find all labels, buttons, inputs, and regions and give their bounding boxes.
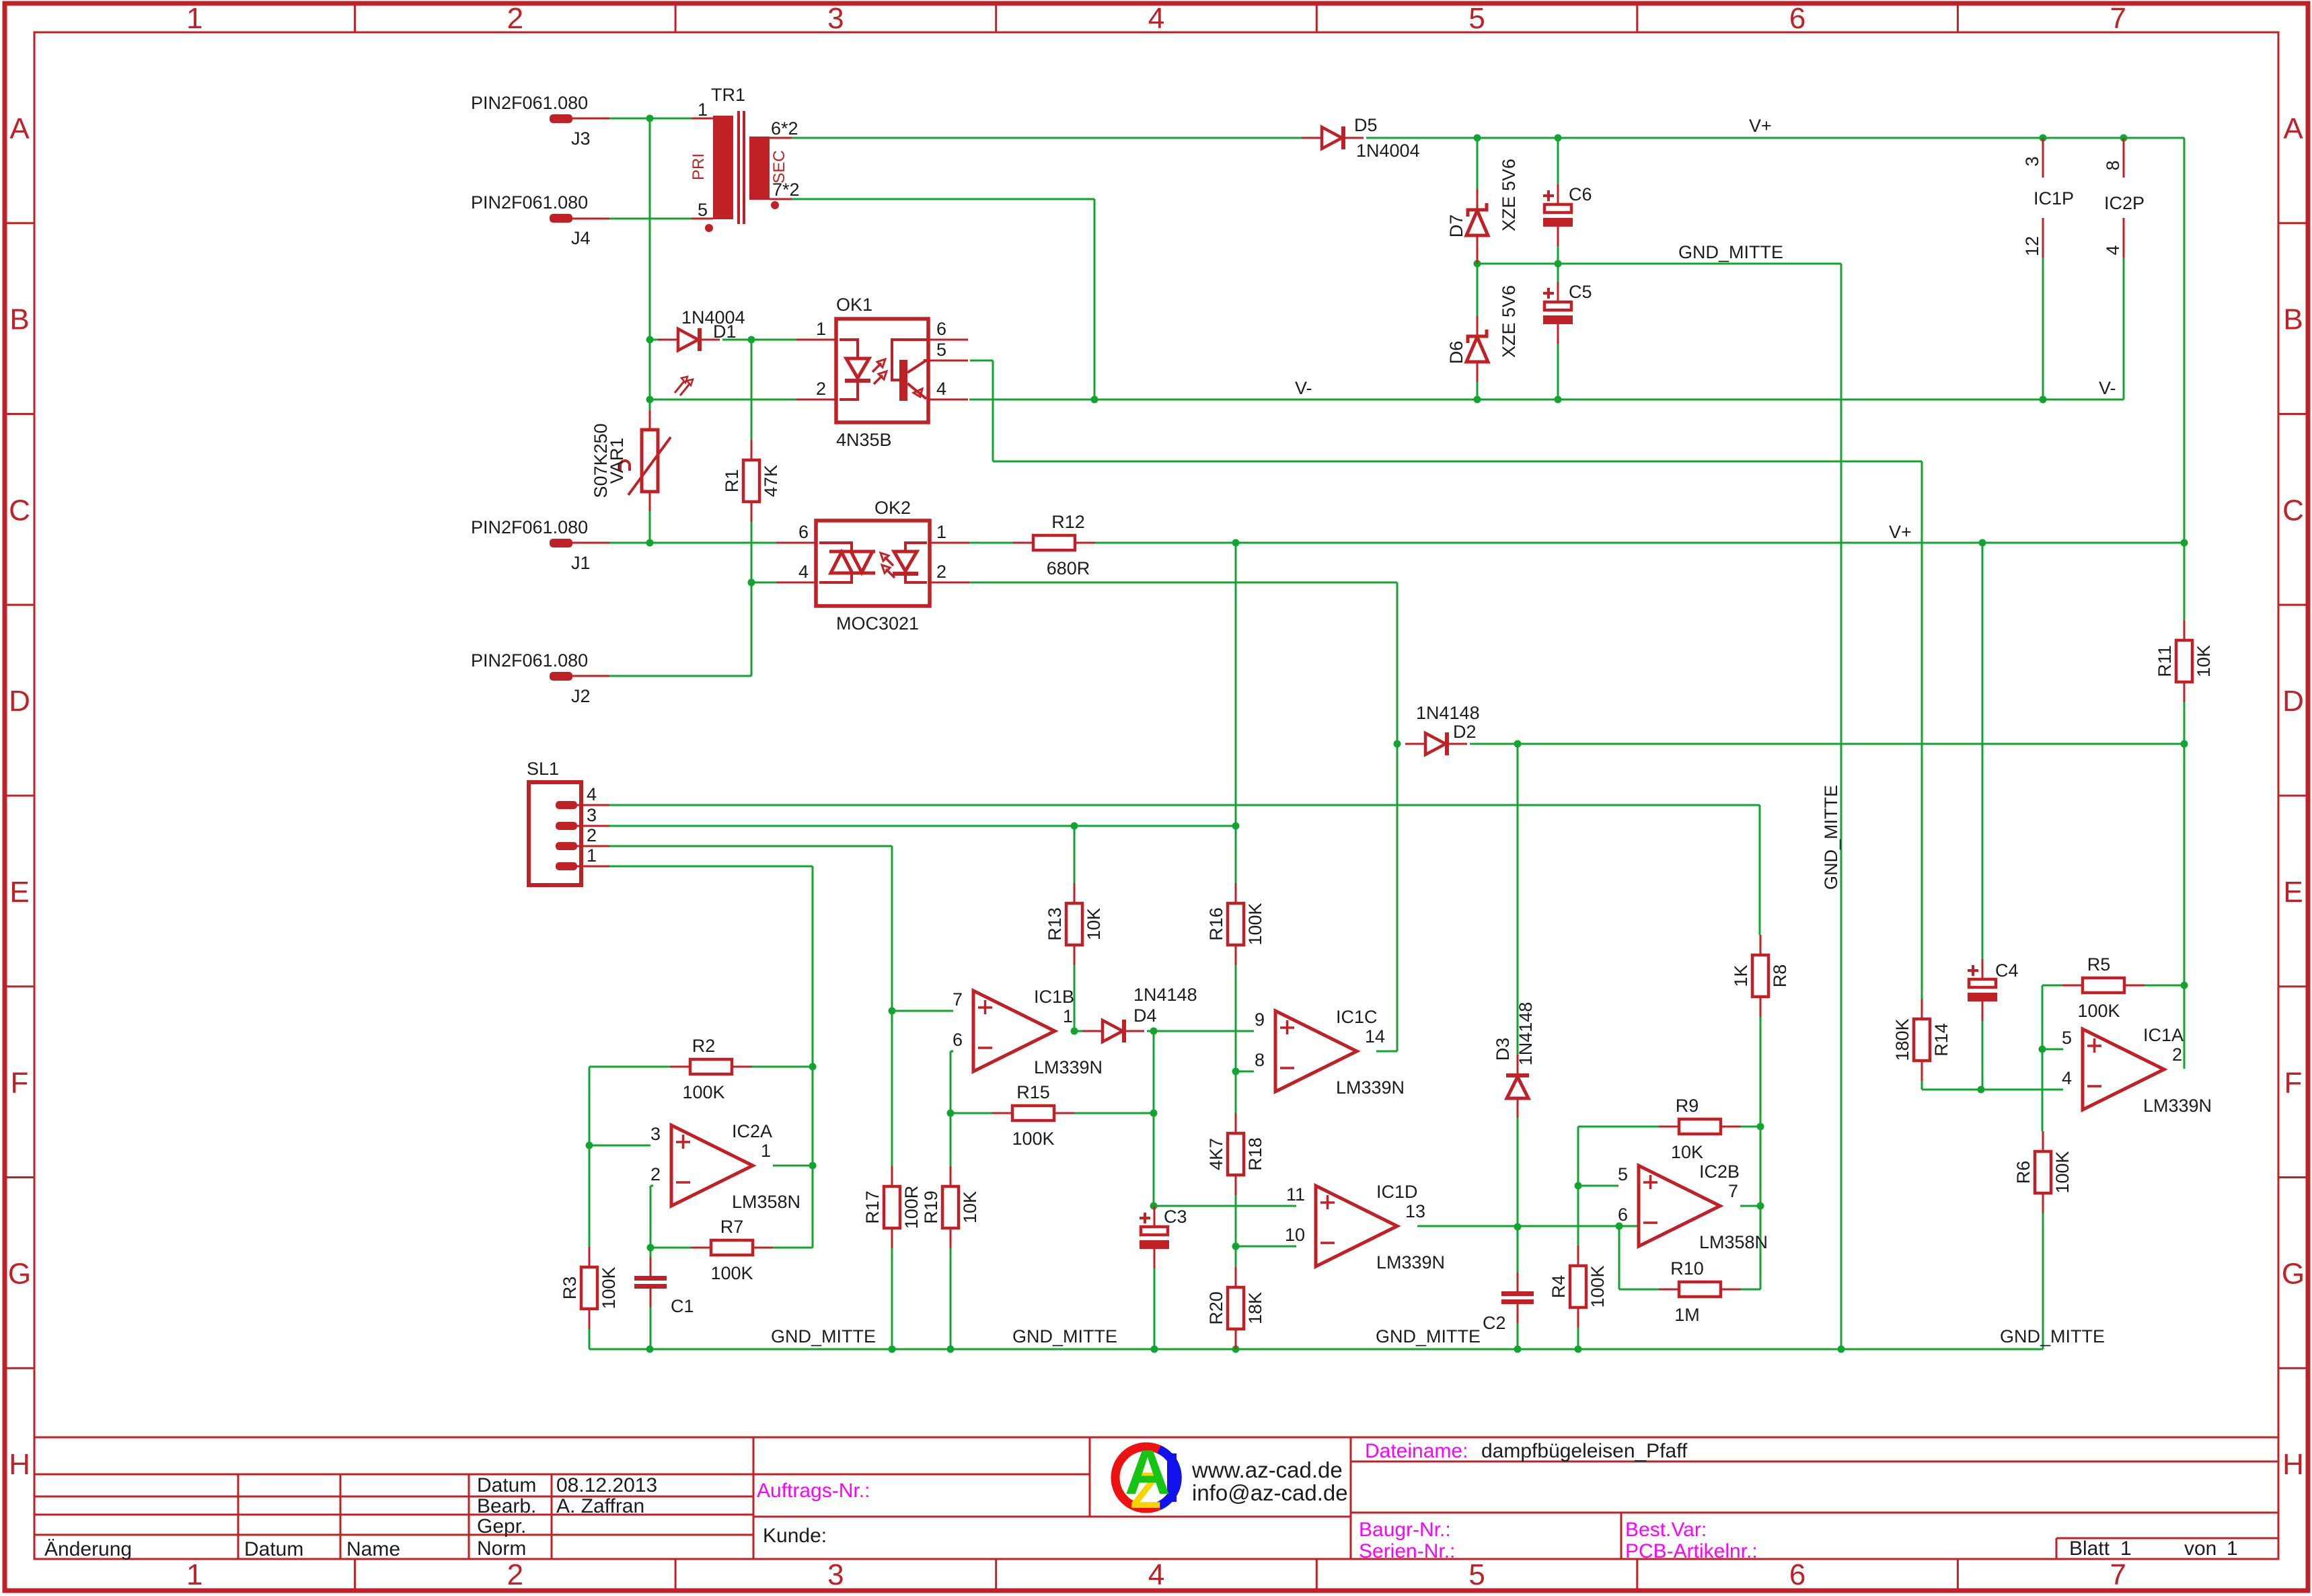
zener diode D6	[1466, 315, 1488, 382]
svg-text:D4: D4	[1133, 1005, 1157, 1026]
op-amp IC1A	[2062, 1025, 2212, 1116]
svg-text:R14: R14	[1931, 1023, 1951, 1057]
connector J1 pad	[550, 539, 572, 547]
svg-text:R13: R13	[1045, 907, 1065, 941]
junction	[646, 539, 654, 547]
resistor R17	[862, 1166, 922, 1248]
junction	[1150, 1028, 1158, 1035]
wire GND_MITTE horizontal	[1477, 263, 1841, 265]
svg-text:6: 6	[1789, 2, 1805, 35]
svg-text:R17: R17	[862, 1190, 883, 1224]
svg-text:PIN2F061.080: PIN2F061.080	[471, 93, 588, 113]
wire pullup to R13	[1074, 826, 1076, 883]
svg-text:IC1D: IC1D	[1376, 1182, 1418, 1202]
svg-text:5: 5	[1618, 1164, 1628, 1184]
svg-text:1N4148: 1N4148	[1416, 703, 1480, 723]
resistor R18	[1206, 1113, 1265, 1195]
svg-text:100K: 100K	[1012, 1129, 1054, 1149]
svg-text:4: 4	[2103, 245, 2123, 255]
wire V+ to C6	[1557, 138, 1559, 186]
wire OK2 pin2	[969, 582, 1397, 584]
wire SL1 pin1 down to IC2A	[812, 866, 814, 1248]
wire OK2 pin1 to R12	[969, 542, 1013, 544]
svg-text:www.az-cad.de: www.az-cad.de	[1191, 1457, 1343, 1482]
wire J4 to TR1 pin5	[609, 218, 692, 220]
svg-text:10K: 10K	[1671, 1142, 1703, 1162]
svg-text:C: C	[2282, 494, 2304, 527]
svg-text:100K: 100K	[599, 1266, 619, 1309]
wire D6 to V-	[1477, 382, 1479, 400]
wire to IC2A in+	[589, 1145, 650, 1147]
junction	[1091, 396, 1098, 404]
svg-text:1: 1	[2120, 1537, 2132, 1560]
op-amp IC1D	[1285, 1182, 1445, 1272]
svg-text:R5: R5	[2087, 954, 2111, 975]
junction	[748, 579, 755, 586]
svg-text:D2: D2	[1453, 722, 1477, 742]
svg-text:MOC3021: MOC3021	[836, 613, 919, 634]
svg-text:A: A	[1125, 1437, 1170, 1507]
svg-text:IC1A: IC1A	[2143, 1025, 2184, 1045]
svg-text:D5: D5	[1354, 115, 1378, 135]
svg-text:GND_MITTE: GND_MITTE	[1821, 785, 1841, 890]
svg-text:F: F	[2284, 1067, 2303, 1100]
svg-text:18K: 18K	[1245, 1292, 1265, 1324]
svg-text:J1: J1	[571, 553, 591, 573]
junction	[889, 1346, 896, 1353]
svg-text:2: 2	[816, 379, 826, 399]
wire IC2B in- to R10	[1618, 1226, 1620, 1289]
svg-text:H: H	[9, 1448, 30, 1481]
wire IC1B in- link	[950, 1051, 953, 1053]
wire C6 to GND_MITTE	[1557, 246, 1559, 264]
svg-text:3: 3	[827, 2, 844, 35]
svg-text:1: 1	[1063, 1006, 1073, 1026]
wire to IC2B in-	[1619, 1225, 1639, 1227]
power pins IC2P	[2123, 138, 2125, 258]
wire to IC1C in-	[1236, 1071, 1254, 1073]
svg-text:D: D	[2282, 685, 2304, 718]
svg-text:R3: R3	[560, 1277, 580, 1300]
wire D7 to GND_MITTE	[1477, 256, 1479, 264]
junction	[2120, 135, 2128, 142]
svg-text:VAR1: VAR1	[607, 438, 627, 484]
svg-text:XZE 5V6: XZE 5V6	[1499, 285, 1519, 358]
svg-text:47K: 47K	[761, 465, 781, 497]
junction	[1757, 1203, 1764, 1210]
svg-text:von: von	[2184, 1537, 2216, 1560]
wire R5 to R6 column	[2042, 985, 2044, 1131]
wire R14/C4 to IC1A in-	[1922, 1089, 2063, 1091]
svg-text:V-: V-	[1295, 378, 1312, 398]
svg-text:R19: R19	[921, 1190, 941, 1224]
wire GND_MITTE to D6	[1477, 264, 1479, 315]
wire IC1B out to D4	[1074, 1030, 1082, 1032]
svg-text:Auftrags-Nr.:: Auftrags-Nr.:	[757, 1480, 870, 1502]
svg-text:13: 13	[1405, 1201, 1425, 1221]
junction	[947, 1110, 955, 1117]
wire V- rail	[969, 399, 2124, 401]
junction	[1978, 1086, 1985, 1094]
svg-text:1: 1	[698, 100, 708, 120]
svg-text:J2: J2	[571, 686, 591, 706]
resistor R8	[1731, 935, 1790, 1017]
svg-text:PCB-Artikelnr.:: PCB-Artikelnr.:	[1625, 1540, 1758, 1562]
wire D4 to IC1C in+	[1147, 1030, 1254, 1032]
svg-text:XZE 5V6: XZE 5V6	[1499, 159, 1519, 231]
wire GND_MITTE vertical	[1840, 264, 1842, 1349]
wire SL1 pin2 down R17 column	[891, 846, 893, 1349]
svg-text:8: 8	[1255, 1050, 1265, 1070]
resistor R7	[691, 1217, 773, 1283]
svg-text:GND_MITTE: GND_MITTE	[1678, 242, 1783, 262]
wire R11/D2 net down to IC1A out	[2184, 744, 2186, 1069]
svg-text:GND_MITTE: GND_MITTE	[771, 1326, 876, 1346]
wire V+ right vertical	[2184, 138, 2186, 543]
svg-text:R11: R11	[2155, 645, 2175, 677]
capacitor C2	[1483, 1272, 1534, 1333]
wire OK1 pin5 down	[992, 360, 994, 461]
svg-text:3: 3	[827, 1558, 844, 1591]
svg-text:7: 7	[2110, 1558, 2126, 1591]
svg-text:7: 7	[1728, 1181, 1738, 1201]
op-amp IC2B	[1618, 1162, 1768, 1252]
svg-text:R8: R8	[1770, 964, 1790, 988]
junction	[2040, 135, 2047, 142]
svg-text:680R: 680R	[1047, 558, 1090, 578]
svg-text:LM339N: LM339N	[1336, 1077, 1405, 1098]
resistor R3	[560, 1247, 619, 1329]
resistor R9	[1659, 1096, 1741, 1162]
zener diode D7	[1466, 189, 1488, 264]
wire IC1P pin12 to V-	[2042, 258, 2044, 400]
svg-text:10K: 10K	[960, 1191, 980, 1223]
svg-text:10K: 10K	[1084, 908, 1104, 940]
wire to C2	[1517, 1227, 1519, 1272]
svg-text:1N4148: 1N4148	[1133, 985, 1197, 1005]
svg-text:12: 12	[2022, 236, 2042, 256]
svg-text:4: 4	[936, 379, 946, 399]
junction	[1514, 1223, 1522, 1231]
svg-text:Bearb.: Bearb.	[477, 1495, 536, 1517]
wire V+ to D7	[1477, 138, 1479, 189]
svg-text:D6: D6	[1446, 341, 1466, 365]
svg-text:C: C	[9, 494, 30, 527]
svg-text:R7: R7	[720, 1217, 744, 1237]
junction	[1555, 135, 1562, 142]
wire R2 right	[752, 1066, 813, 1068]
svg-text:1: 1	[936, 522, 946, 542]
svg-text:C2: C2	[1483, 1313, 1506, 1333]
svg-text:08.12.2013: 08.12.2013	[556, 1474, 657, 1496]
svg-text:1: 1	[761, 1141, 771, 1161]
junction	[1394, 740, 1401, 748]
svg-text:LM339N: LM339N	[1034, 1057, 1103, 1077]
svg-text:Dateiname:: Dateiname:	[1365, 1440, 1468, 1462]
resistor R14	[1892, 999, 1951, 1081]
svg-text:IC1P: IC1P	[2034, 188, 2074, 208]
connector SL1	[529, 782, 609, 885]
svg-text:GND_MITTE: GND_MITTE	[2000, 1326, 2105, 1346]
svg-text:2: 2	[2172, 1044, 2182, 1065]
svg-text:6*2: 6*2	[771, 118, 798, 139]
svg-text:A. Zaffran: A. Zaffran	[556, 1495, 644, 1517]
capacitor C1	[634, 1257, 694, 1316]
junction	[1232, 1068, 1240, 1075]
wire to R20	[1235, 1246, 1237, 1267]
connector J4 pad	[550, 214, 572, 223]
svg-text:IC1B: IC1B	[1034, 987, 1074, 1007]
power pins IC1P	[2042, 138, 2044, 258]
svg-text:TR1: TR1	[711, 85, 745, 105]
svg-text:D3: D3	[1493, 1038, 1513, 1061]
wire C1 top link	[650, 1248, 652, 1258]
svg-text:F: F	[11, 1067, 29, 1100]
logo az-cad	[1115, 1437, 1177, 1519]
svg-text:GND_MITTE: GND_MITTE	[1376, 1326, 1481, 1346]
resistor R6	[2013, 1131, 2073, 1213]
svg-text:IC2A: IC2A	[732, 1121, 772, 1141]
svg-text:D: D	[9, 685, 30, 718]
wire VAR1 bottom to J1 net	[649, 511, 651, 543]
connector J4 pin wire	[572, 218, 609, 220]
junction	[1071, 823, 1078, 830]
connector J3 pin wire	[572, 118, 609, 120]
svg-text:11: 11	[1286, 1184, 1305, 1205]
wire SL1 pin1 net	[609, 866, 813, 868]
svg-text:J4: J4	[571, 228, 591, 248]
optocoupler OK2	[776, 521, 969, 606]
junction	[1232, 1243, 1240, 1250]
wire D1 cathode to OK1 pin1	[722, 339, 796, 341]
svg-text:100K: 100K	[2052, 1151, 2073, 1193]
svg-text:info@az-cad.de: info@az-cad.de	[1192, 1480, 1348, 1505]
junction	[2181, 539, 2188, 547]
wire pullup to R16	[1235, 826, 1237, 883]
svg-text:14: 14	[1365, 1026, 1385, 1047]
svg-text:C1: C1	[671, 1296, 694, 1316]
junction	[1616, 1223, 1623, 1230]
junction	[647, 1244, 655, 1252]
svg-text:9: 9	[1255, 1010, 1265, 1030]
svg-text:Norm: Norm	[477, 1537, 526, 1560]
svg-text:3: 3	[587, 805, 597, 825]
svg-text:IC2P: IC2P	[2104, 193, 2145, 213]
wire IC2B out	[1740, 1205, 1760, 1207]
svg-text:R6: R6	[2013, 1161, 2034, 1184]
svg-text:IC1C: IC1C	[1336, 1007, 1378, 1027]
junction	[1555, 260, 1562, 268]
wire OK2 pin2 down to IC1C out	[1396, 582, 1399, 1051]
svg-text:E: E	[9, 876, 29, 909]
svg-text:Gepr.: Gepr.	[477, 1515, 526, 1537]
title block table lines	[34, 1437, 2278, 1559]
svg-text:4: 4	[1148, 1558, 1164, 1591]
svg-text:OK1: OK1	[836, 295, 872, 315]
wire R16 down to IC1C in-	[1235, 965, 1237, 1071]
svg-text:1: 1	[2227, 1537, 2238, 1560]
junction	[1838, 1346, 1845, 1353]
svg-text:5: 5	[2062, 1028, 2072, 1048]
resistor R10	[1659, 1258, 1741, 1325]
frame row ticks	[5, 223, 2308, 1368]
wire R1 bottom to OK2 pin4 net	[751, 522, 753, 582]
resistor R19	[921, 1166, 980, 1248]
svg-text:6: 6	[1618, 1205, 1628, 1225]
wire R2 to R3 column	[589, 1067, 591, 1247]
wire R3 to GND	[589, 1329, 591, 1349]
svg-text:Name: Name	[346, 1538, 400, 1560]
svg-text:100K: 100K	[1588, 1265, 1608, 1307]
wire D4 net down to C3	[1153, 1031, 1155, 1206]
wire C3 to IC1D in+	[1154, 1205, 1296, 1207]
svg-text:V-: V-	[2099, 378, 2116, 398]
svg-text:dampfbügeleisen_Pfaff: dampfbügeleisen_Pfaff	[1481, 1440, 1688, 1462]
junction	[1474, 260, 1481, 268]
junction	[748, 336, 755, 344]
wire C3 bottom to GND	[1154, 1268, 1156, 1349]
svg-text:V+: V+	[1889, 522, 1912, 542]
wire J2 horizontal	[609, 675, 751, 677]
wire V+ down to R16 / pullup rail	[1235, 543, 1237, 883]
svg-text:7: 7	[2110, 2, 2126, 35]
junction	[809, 1162, 817, 1170]
svg-text:OK2: OK2	[874, 498, 911, 518]
svg-text:4: 4	[1148, 2, 1164, 35]
svg-text:IC2B: IC2B	[1699, 1162, 1740, 1182]
wire to OK2 pin4	[751, 582, 776, 584]
svg-text:Datum: Datum	[244, 1538, 303, 1560]
wire D2 net down to D3	[1517, 744, 1519, 1055]
resistor R15	[992, 1082, 1074, 1149]
svg-text:4N35B: 4N35B	[836, 430, 892, 450]
wire IC1D out	[1417, 1225, 1619, 1227]
wire D1 cathode down to R1	[751, 340, 753, 441]
wire J3 to TR1 pin1	[609, 118, 692, 120]
svg-text:100R: 100R	[901, 1186, 922, 1229]
svg-text:4: 4	[2062, 1068, 2072, 1088]
junction	[1474, 135, 1481, 142]
svg-text:R4: R4	[1549, 1275, 1569, 1299]
wire to IC1B in+	[892, 1010, 953, 1012]
wire V+ down to C4	[1982, 545, 1984, 960]
junction	[1555, 396, 1562, 404]
wire R19 column	[950, 1051, 952, 1349]
junction	[1474, 396, 1481, 404]
svg-text:B: B	[9, 303, 29, 336]
wire GND_MITTE bottom rail	[589, 1348, 2043, 1351]
wire D2 cathode to R11	[1470, 743, 2184, 745]
wire TR1 6*2 to D5	[792, 137, 1302, 139]
svg-text:R9: R9	[1676, 1096, 1699, 1116]
junction	[646, 1346, 654, 1353]
wire R10 right	[1741, 1289, 1760, 1291]
svg-text:1M: 1M	[1674, 1305, 1700, 1325]
svg-text:C3: C3	[1164, 1207, 1187, 1227]
frame column ticks	[355, 3, 1958, 1591]
svg-text:100K: 100K	[1245, 903, 1265, 945]
svg-text:3: 3	[650, 1124, 661, 1144]
svg-text:1: 1	[186, 1558, 202, 1591]
wire IC2P pin4 to V-	[2123, 258, 2125, 400]
junction	[1514, 740, 1522, 748]
wire SL1 pin3 / pullup net	[609, 825, 1236, 827]
svg-text:180K: 180K	[1892, 1018, 1912, 1061]
wire V+ to R11	[2184, 543, 2186, 621]
svg-text:2: 2	[936, 562, 946, 582]
wire R13 to IC1B out	[1074, 965, 1076, 1031]
capacitor C4	[1968, 959, 2019, 1021]
wire OK1 pin5 stub link	[970, 360, 993, 362]
capacitor C6	[1543, 184, 1592, 246]
junction	[586, 1142, 593, 1149]
wire C5 to V-	[1557, 344, 1559, 400]
junction	[809, 1063, 817, 1071]
junction	[1575, 1346, 1582, 1353]
connector J3 pad	[550, 114, 572, 123]
svg-text:2: 2	[587, 825, 597, 845]
wire R15 left	[950, 1112, 992, 1114]
resistor R16	[1206, 883, 1265, 965]
junction	[2040, 396, 2047, 404]
svg-text:E: E	[2283, 876, 2303, 909]
svg-text:C6: C6	[1569, 184, 1592, 204]
resistor R4	[1549, 1246, 1608, 1328]
connector J1 pin wire	[572, 542, 609, 544]
svg-text:PIN2F061.080: PIN2F061.080	[471, 517, 588, 537]
wire R7 right	[772, 1247, 813, 1249]
wire R14 bottom	[1921, 1081, 1923, 1090]
wire R9/R4 column	[1577, 1127, 1579, 1246]
wire down to R14	[1921, 461, 1923, 999]
diode D1	[658, 328, 720, 351]
wire R5 right	[2145, 985, 2184, 987]
wire R9 left	[1578, 1126, 1659, 1128]
junction	[1232, 823, 1240, 830]
svg-text:1K: 1K	[1731, 964, 1751, 987]
wire IC2A in- column	[650, 1186, 652, 1248]
wire J2 up to OK2 pin4 net	[751, 582, 753, 676]
resistor R20	[1206, 1267, 1265, 1349]
wire C1 to GND	[650, 1305, 652, 1349]
wire 7*2 down to V-	[1094, 199, 1096, 400]
svg-text:1: 1	[587, 845, 597, 866]
wire R2 left	[589, 1066, 670, 1068]
wire R10 left	[1619, 1289, 1659, 1291]
svg-text:5: 5	[1468, 2, 1485, 35]
svg-text:5: 5	[698, 200, 708, 220]
svg-text:LM339N: LM339N	[1376, 1252, 1445, 1272]
svg-text:Blatt: Blatt	[2069, 1537, 2110, 1560]
svg-text:C4: C4	[1995, 960, 2019, 981]
svg-text:R10: R10	[1670, 1258, 1704, 1279]
svg-text:1N4004: 1N4004	[1356, 141, 1420, 161]
optocoupler OK1	[796, 319, 968, 422]
junction	[1151, 1346, 1158, 1353]
wire R7 left	[650, 1247, 691, 1249]
svg-text:10K: 10K	[2194, 645, 2214, 677]
svg-text:R18: R18	[1245, 1137, 1265, 1171]
svg-text:10: 10	[1285, 1225, 1305, 1245]
wire to IC1D in-	[1236, 1246, 1296, 1248]
capacitor C3	[1140, 1207, 1187, 1268]
junction	[1232, 1346, 1240, 1353]
svg-text:5: 5	[936, 340, 946, 360]
wire SL1 pin4 net	[609, 804, 1760, 806]
wire D1 anode stub	[650, 339, 658, 341]
junction	[1979, 539, 1986, 547]
transformer TR1	[692, 111, 792, 232]
